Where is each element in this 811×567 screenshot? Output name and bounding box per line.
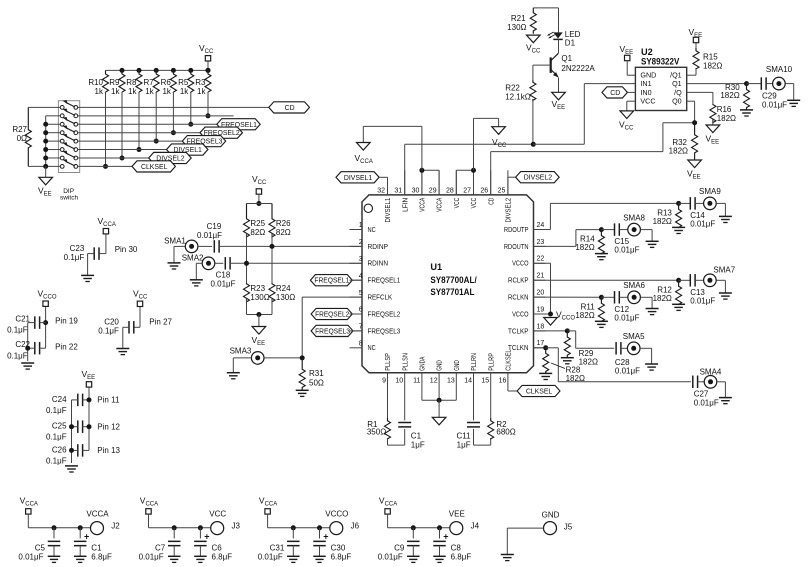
- net flag DIVSEL1 (DIP): [167, 144, 208, 155]
- svg-text:FREQSEL2: FREQSEL2: [315, 312, 349, 319]
- svg-text:350Ω: 350Ω: [367, 428, 386, 437]
- svg-text:182Ω: 182Ω: [720, 91, 739, 100]
- svg-text:+: +: [204, 532, 209, 542]
- svg-text:SMA7: SMA7: [713, 266, 735, 275]
- pin 16 CLKSEL: [507, 372, 509, 374]
- svg-text:182Ω: 182Ω: [653, 217, 672, 226]
- power VEE (R16): [706, 125, 720, 133]
- svg-text:C31: C31: [270, 544, 285, 553]
- svg-text:182Ω: 182Ω: [717, 114, 736, 123]
- DIP switch S1: [58, 101, 79, 173]
- svg-text:SY87700AL/: SY87700AL/: [430, 275, 477, 285]
- wire VCCA pins 30/29: [421, 170, 423, 195]
- svg-text:TCLKP: TCLKP: [508, 326, 529, 335]
- svg-text:130Ω: 130Ω: [507, 23, 526, 32]
- wire DIP row6: [78, 149, 167, 151]
- capacitor C14 0.01uF: [679, 202, 691, 204]
- svg-text:R16: R16: [717, 105, 732, 114]
- resistor R3 1k: [206, 68, 211, 73]
- svg-text:R31: R31: [309, 369, 324, 378]
- wire DIP row1 to CD: [78, 106, 269, 108]
- node LFIN junction: [531, 142, 536, 147]
- pin 31 LFIN: [404, 170, 406, 195]
- capacitor C29 0.01uF: [747, 83, 762, 85]
- svg-text:PLLSP: PLLSP: [385, 353, 392, 371]
- resistor R7 1k: [154, 68, 159, 73]
- net flag FREQSEL2 (pin6): [311, 308, 352, 319]
- svg-text:RDOUTN: RDOUTN: [504, 242, 529, 251]
- svg-text:NC: NC: [368, 225, 376, 234]
- capacitor C25 0.1uF: [77, 420, 79, 433]
- power VCCO (pin19): [544, 318, 558, 326]
- svg-text:5: 5: [359, 290, 363, 297]
- svg-text:12: 12: [430, 378, 438, 385]
- svg-text:CD: CD: [610, 90, 620, 97]
- svg-text:+: +: [84, 532, 89, 542]
- wire CD (pin26) to U2 Q0: [490, 152, 492, 195]
- resistor R25 82ohm: [244, 204, 250, 237]
- net flag DIVSEL2 (pin25): [507, 177, 509, 195]
- svg-text:Q0: Q0: [672, 97, 682, 106]
- svg-text:R3: R3: [195, 78, 206, 87]
- svg-text:R21: R21: [511, 14, 526, 23]
- svg-text:GND: GND: [542, 510, 560, 519]
- svg-text:1k: 1k: [162, 87, 171, 96]
- svg-text:0.01μF: 0.01μF: [615, 367, 640, 376]
- wire U2 Q0 output: [687, 100, 695, 102]
- svg-text:R8: R8: [126, 78, 137, 87]
- svg-text:SY87701AL: SY87701AL: [430, 287, 474, 297]
- svg-text:R22: R22: [505, 83, 520, 92]
- svg-text:SMA2: SMA2: [182, 254, 204, 263]
- ground (R11): [595, 320, 608, 322]
- capacitor C13 0.01uF: [679, 279, 691, 281]
- svg-text:R5: R5: [178, 78, 189, 87]
- resistor R22 12.1k: [533, 64, 551, 66]
- svg-text:18: 18: [537, 323, 545, 330]
- svg-text:0.1μF: 0.1μF: [7, 326, 28, 335]
- pin 30 VCCA: [421, 170, 423, 195]
- svg-text:0.1μF: 0.1μF: [7, 352, 28, 361]
- svg-text:Pin 13: Pin 13: [97, 446, 120, 455]
- svg-text:GND: GND: [454, 360, 461, 371]
- svg-text:R10: R10: [88, 78, 103, 87]
- net flag FREQSEL3 (DIP): [182, 136, 225, 147]
- svg-text:VCCA: VCCA: [437, 197, 444, 211]
- wire DIP row3: [78, 123, 217, 125]
- svg-text:SMA1: SMA1: [164, 237, 186, 246]
- wire LFIN (pin31): [404, 144, 406, 195]
- svg-text:6.8μF: 6.8μF: [451, 553, 472, 562]
- svg-text:R7: R7: [143, 78, 154, 87]
- wire R23/R24 bottom rail: [247, 314, 273, 316]
- svg-text:RDOUTP: RDOUTP: [504, 225, 529, 234]
- svg-text:J6: J6: [351, 522, 360, 531]
- svg-text:30: 30: [412, 187, 420, 194]
- svg-text:4: 4: [359, 273, 363, 280]
- svg-text:C22: C22: [15, 340, 30, 349]
- svg-text:VCCA: VCCA: [86, 510, 109, 519]
- svg-text:182Ω: 182Ω: [669, 146, 688, 155]
- ground (C8): [433, 555, 446, 557]
- wire DIP row4: [78, 132, 200, 134]
- svg-text:C30: C30: [331, 544, 346, 553]
- wire DIP row2 stub: [78, 115, 234, 117]
- net flag CLKSEL (DIP): [132, 161, 175, 172]
- svg-text:0.01μF: 0.01μF: [378, 553, 403, 562]
- resistor R16 182ohm: [710, 104, 716, 123]
- svg-text:9: 9: [382, 378, 386, 385]
- svg-text:Pin 27: Pin 27: [149, 318, 172, 327]
- net flag CLKSEL (pin16): [517, 385, 560, 396]
- svg-text:1k: 1k: [145, 87, 154, 96]
- svg-text:CLKSEL: CLKSEL: [506, 349, 513, 370]
- capacitor C15 0.01uF: [601, 229, 614, 231]
- svg-text:VCCO: VCCO: [325, 510, 348, 519]
- ground (R29): [561, 357, 574, 359]
- svg-text:SMA8: SMA8: [623, 213, 645, 222]
- svg-text:+: +: [323, 532, 328, 542]
- resistor R1 350ohm: [387, 373, 389, 418]
- svg-text:0.1μF: 0.1μF: [46, 433, 67, 442]
- svg-text:20: 20: [537, 290, 545, 297]
- resistor R24 130ohm: [271, 246, 273, 283]
- wire REFCLK (pin5): [302, 296, 362, 298]
- resistor R28 182ohm: [543, 348, 549, 374]
- LED D1: [558, 8, 560, 33]
- svg-text:C25: C25: [52, 422, 67, 431]
- svg-text:DIVSEL1: DIVSEL1: [344, 175, 373, 182]
- svg-text:C24: C24: [52, 395, 67, 404]
- pin 15 PLLRP: [490, 372, 492, 374]
- svg-text:11: 11: [413, 378, 420, 385]
- resistor R10 1k: [103, 70, 109, 92]
- svg-text:J4: J4: [471, 522, 480, 531]
- svg-text:VCC: VCC: [209, 510, 226, 519]
- ground (R13): [672, 226, 685, 228]
- svg-text:RCLKP: RCLKP: [508, 276, 529, 285]
- pin 28 VCC: [455, 170, 457, 195]
- svg-text:R6: R6: [161, 78, 172, 87]
- svg-text:U2: U2: [641, 47, 653, 57]
- wire VCCO pins 22/19: [534, 262, 551, 264]
- ground (R30): [740, 109, 753, 111]
- ground (SMA2): [190, 279, 203, 281]
- svg-text:3: 3: [359, 256, 363, 263]
- svg-text:FREQSEL1: FREQSEL1: [368, 276, 401, 285]
- svg-text:1: 1: [359, 222, 363, 229]
- resistor R12 182ohm: [676, 280, 682, 304]
- transistor Q1 2N2222A: [558, 39, 560, 53]
- power VCC (R21): [527, 35, 541, 43]
- svg-text:182Ω: 182Ω: [575, 243, 594, 252]
- pin 1 NC: [350, 229, 363, 231]
- pin 29 VCCA: [438, 170, 440, 195]
- pin 21 RCLKP: [534, 279, 546, 281]
- svg-text:C18: C18: [216, 271, 231, 280]
- svg-text:28: 28: [446, 187, 454, 194]
- wire U2 /Q output: [687, 91, 713, 93]
- svg-text:PLLRP: PLLRP: [488, 353, 495, 371]
- wire R25/R26 top rail: [247, 203, 273, 205]
- pin 14 PLLRN: [473, 372, 475, 374]
- svg-text:VCCA: VCCA: [420, 197, 427, 211]
- svg-text:0.1μF: 0.1μF: [98, 327, 119, 336]
- svg-text:IN0: IN0: [640, 88, 651, 97]
- pin 2 RDINP: [350, 245, 363, 247]
- svg-text:82Ω: 82Ω: [276, 228, 291, 237]
- resistor R15 182ohm: [695, 43, 697, 48]
- svg-text:82Ω: 82Ω: [250, 228, 265, 237]
- node SMA10 junction: [744, 81, 749, 86]
- IC U1 SY87700AL/SY87701AL: [362, 195, 534, 373]
- svg-text:0.1μF: 0.1μF: [46, 406, 67, 415]
- svg-text:R27: R27: [12, 125, 27, 134]
- wire junction to U2 IN1: [533, 143, 584, 145]
- svg-text:14: 14: [464, 378, 472, 385]
- capacitor C7 0.01uF: [172, 525, 177, 530]
- pin 25 DIVSEL2: [507, 170, 509, 195]
- IC U2 SY89322V: [635, 67, 686, 110]
- resistor R6 1k: [171, 68, 176, 73]
- pin 24 RDOUTP: [534, 229, 546, 231]
- svg-text:0.1μF: 0.1μF: [46, 457, 67, 466]
- resistor R2 680ohm: [490, 373, 492, 418]
- svg-text:23: 23: [537, 239, 545, 246]
- svg-text:16: 16: [499, 378, 507, 385]
- svg-text:182Ω: 182Ω: [575, 311, 594, 320]
- svg-text:VCCO: VCCO: [512, 309, 529, 318]
- svg-text:FREQSEL3: FREQSEL3: [368, 326, 401, 335]
- svg-text:26: 26: [480, 187, 488, 194]
- svg-text:VCC: VCC: [471, 198, 478, 209]
- svg-text:SMA6: SMA6: [623, 281, 645, 290]
- svg-text:R26: R26: [276, 219, 291, 228]
- capacitor C1 1uF: [404, 373, 406, 421]
- resistor R27 0ohm: [28, 106, 60, 108]
- svg-text:6.8μF: 6.8μF: [91, 553, 112, 562]
- capacitor C21 0.1uF: [45, 307, 47, 348]
- ground (C30): [313, 555, 326, 557]
- power VCCA (U1 top): [357, 143, 371, 151]
- svg-text:RDINN: RDINN: [368, 259, 389, 268]
- svg-text:182Ω: 182Ω: [653, 294, 672, 303]
- svg-text:17: 17: [537, 340, 545, 347]
- svg-text:15: 15: [481, 378, 489, 385]
- svg-text:CLKSEL: CLKSEL: [141, 164, 168, 171]
- ground (SMA7): [719, 292, 732, 294]
- wire CLKSEL (pin16): [507, 373, 509, 391]
- svg-text:680Ω: 680Ω: [496, 428, 515, 437]
- net flag FREQSEL1 (DIP): [217, 119, 260, 130]
- svg-text:8: 8: [359, 341, 363, 348]
- svg-text:REFCLK: REFCLK: [368, 293, 393, 302]
- wire U2 Q1 output: [687, 83, 747, 85]
- svg-text:DIVSEL1: DIVSEL1: [385, 198, 392, 223]
- ground (SMA5): [645, 363, 658, 365]
- svg-text:22: 22: [537, 256, 545, 263]
- svg-text:PLLSN: PLLSN: [402, 353, 409, 371]
- svg-text:0.01μF: 0.01μF: [614, 246, 639, 255]
- capacitor C5 0.01uF: [52, 525, 57, 530]
- resistor R26 82ohm: [269, 204, 275, 237]
- svg-text:6.8μF: 6.8μF: [331, 553, 352, 562]
- svg-text:50Ω: 50Ω: [309, 379, 324, 388]
- svg-text:C7: C7: [155, 544, 166, 553]
- capacitor C26 0.1uF: [77, 444, 79, 457]
- svg-text:10: 10: [395, 378, 403, 385]
- wire pin32 riser: [379, 176, 387, 178]
- power VCC (U2 VCC pin): [627, 100, 636, 102]
- svg-text:0.01μF: 0.01μF: [210, 280, 235, 289]
- svg-text:C21: C21: [15, 315, 30, 324]
- svg-text:C6: C6: [212, 544, 223, 553]
- ground (C21/C22): [21, 362, 34, 364]
- capacitor C19 0.01uF: [198, 245, 212, 247]
- pin 9 PLLSP: [387, 372, 389, 374]
- svg-text:0.01μF: 0.01μF: [258, 553, 283, 562]
- pin 18 TCLKP: [534, 330, 546, 332]
- resistor R5 1k: [188, 68, 193, 73]
- resistor R13 182ohm: [676, 203, 682, 227]
- svg-text:RCLKN: RCLKN: [508, 293, 529, 302]
- svg-text:J2: J2: [111, 522, 120, 531]
- capacitor C30 6.8uF polarized: [317, 525, 322, 530]
- svg-text:C11: C11: [457, 432, 472, 441]
- svg-text:130Ω: 130Ω: [250, 293, 269, 302]
- svg-text:1k: 1k: [197, 87, 206, 96]
- svg-text:27: 27: [463, 187, 471, 194]
- net flag CD (DIP): [269, 102, 310, 113]
- wire VCC pins 28/27: [455, 170, 457, 195]
- wire GNDA/GND pins 11-13: [421, 373, 423, 400]
- ground (SMA3): [227, 372, 240, 374]
- svg-text:Pin 12: Pin 12: [97, 422, 120, 431]
- power VCC (U1 top): [492, 127, 506, 135]
- net flag FREQSEL1 (pin4): [310, 275, 352, 286]
- power VEE (Q1 emitter): [552, 92, 566, 100]
- power VEE (R32): [688, 160, 702, 168]
- svg-text:24: 24: [537, 222, 545, 229]
- svg-text:SMA9: SMA9: [699, 187, 721, 196]
- net flag DIVSEL1 (pin32): [336, 172, 379, 183]
- svg-text:0.01μF: 0.01μF: [690, 296, 715, 305]
- node Q0/CD junction: [692, 120, 697, 125]
- svg-text:0.01μF: 0.01μF: [694, 399, 719, 408]
- svg-text:1μF: 1μF: [411, 441, 425, 450]
- resistor R23 130ohm: [246, 263, 248, 283]
- wire pullup rail: [106, 69, 209, 71]
- capacitor C23 0.1uF: [105, 234, 107, 253]
- net flag CD (U2 IN0): [602, 87, 627, 98]
- svg-text:19: 19: [537, 306, 545, 313]
- svg-text:Pin 30: Pin 30: [115, 245, 138, 254]
- svg-text:7: 7: [359, 324, 363, 331]
- wire RDOUTP (pin24): [534, 229, 551, 231]
- svg-text:C29: C29: [762, 92, 777, 101]
- svg-text:C23: C23: [70, 244, 85, 253]
- pin 10 PLLSN: [404, 372, 406, 374]
- wire RDOUTN (pin23): [534, 245, 576, 247]
- svg-text:130Ω: 130Ω: [276, 293, 295, 302]
- wire LED rail: [533, 7, 558, 9]
- net flag DIVSEL2 (DIP): [149, 152, 192, 163]
- capacitor C27 0.01uF: [692, 376, 694, 389]
- svg-text:0Ω: 0Ω: [17, 134, 27, 143]
- svg-text:C26: C26: [52, 446, 67, 455]
- ground (C31): [287, 555, 300, 557]
- svg-text:SMA5: SMA5: [623, 332, 645, 341]
- svg-text:LFIN: LFIN: [402, 198, 409, 212]
- capacitor C8 6.8uF polarized: [437, 525, 442, 530]
- svg-text:6.8μF: 6.8μF: [212, 553, 233, 562]
- svg-text:31: 31: [394, 187, 402, 194]
- wire R1/C1 bottom: [388, 444, 405, 446]
- svg-text:182Ω: 182Ω: [703, 62, 722, 71]
- svg-text:SY89322V: SY89322V: [641, 57, 680, 67]
- svg-text:C9: C9: [394, 544, 405, 553]
- wire SMA3 to REFCLK: [264, 357, 302, 359]
- pin 7 FREQSEL3: [350, 330, 363, 332]
- svg-text:0.01μF: 0.01μF: [197, 231, 222, 240]
- pin 12 GND: [438, 372, 440, 374]
- svg-text:RDINP: RDINP: [368, 242, 389, 251]
- svg-text:Q1: Q1: [561, 54, 572, 63]
- ground (R12): [672, 303, 685, 305]
- svg-text:GNDA: GNDA: [420, 356, 427, 370]
- pin 8 NC: [350, 347, 363, 349]
- svg-text:U1: U1: [430, 262, 442, 272]
- svg-text:VCC: VCC: [454, 198, 461, 209]
- svg-text:2N2222A: 2N2222A: [561, 64, 595, 73]
- resistor R9 1k: [120, 68, 125, 73]
- svg-text:Pin 22: Pin 22: [55, 343, 78, 352]
- pin 20 RCLKN: [534, 296, 546, 298]
- wire TCLKP (pin18): [534, 330, 568, 332]
- pin 27 VCC: [473, 170, 475, 195]
- ground (C24-C26): [65, 465, 78, 467]
- svg-text:switch: switch: [60, 195, 78, 202]
- power VEE (R23/R24): [252, 327, 266, 335]
- svg-text:+: +: [443, 532, 448, 542]
- svg-text:GND: GND: [437, 360, 444, 371]
- wire C11/R2 bottom: [474, 444, 491, 446]
- svg-text:LED: LED: [565, 30, 581, 39]
- resistor R21 130ohm: [530, 8, 536, 34]
- svg-text:VCCO: VCCO: [512, 259, 529, 268]
- svg-text:1k: 1k: [95, 87, 104, 96]
- wire DIP row7: [78, 157, 149, 159]
- svg-text:C5: C5: [35, 544, 46, 553]
- svg-text:C20: C20: [104, 318, 119, 327]
- svg-text:J3: J3: [232, 522, 241, 531]
- svg-text:1k: 1k: [180, 87, 189, 96]
- ground (R28): [539, 372, 552, 374]
- resistor R11 182ohm: [598, 297, 604, 321]
- svg-text:FREQSEL1: FREQSEL1: [314, 278, 349, 285]
- pin 17 TCLKN: [534, 347, 546, 349]
- capacitor C20 0.1uF: [139, 307, 141, 327]
- pin 11 GNDA: [421, 372, 423, 374]
- svg-text:R15: R15: [703, 53, 718, 62]
- capacitor C1 6.8uF polarized: [78, 525, 83, 530]
- svg-text:0.01μF: 0.01μF: [762, 100, 787, 109]
- wire DIP common to VEE: [46, 115, 61, 117]
- resistor R8 1k: [137, 68, 142, 73]
- ground (SMA4): [719, 397, 732, 399]
- wire DIP row8: [78, 165, 132, 167]
- svg-text:6: 6: [359, 307, 363, 314]
